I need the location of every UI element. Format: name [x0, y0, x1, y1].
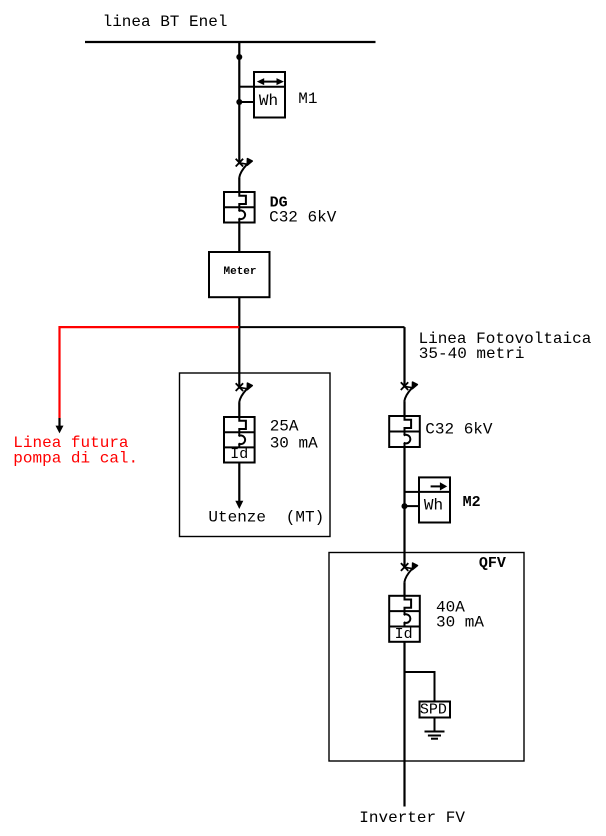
svg-text:Wh: Wh: [259, 92, 278, 110]
breaker contact QFV (x + blade + arrow): [401, 563, 418, 582]
wire M1 upper tap: [239, 86, 254, 88]
breaker contact DG (x + blade + arrow): [236, 159, 253, 178]
wire FV drop to breaker C32: [403, 327, 405, 388]
svg-text:C32 6kV: C32 6kV: [269, 208, 337, 226]
wire blade to breaker C32 FV: [403, 401, 405, 416]
svg-text:Id: Id: [395, 626, 413, 643]
wire blade to breaker DG: [238, 178, 240, 192]
svg-text:pompa di cal.: pompa di cal.: [13, 450, 138, 468]
svg-text:(MT): (MT): [286, 509, 324, 527]
panel box QFV: [329, 553, 524, 762]
meter Meter box: [209, 252, 270, 297]
wire SPD branch vertical: [434, 672, 436, 702]
wire M1 lower tap: [239, 101, 254, 103]
wire M2 lower tap: [405, 505, 420, 507]
svg-text:linea BT Enel: linea BT Enel: [103, 13, 228, 31]
arrow to Utenze: [235, 501, 243, 509]
breaker C32 6kV FV (thermal + magnetic): [389, 416, 420, 447]
svg-text:30 mA: 30 mA: [270, 435, 318, 453]
breaker contact 25A (x + blade + arrow): [236, 383, 253, 402]
junction dot M1 tap: [236, 99, 242, 105]
svg-text:C32 6kV: C32 6kV: [425, 421, 493, 439]
svg-text:Inverter FV: Inverter FV: [359, 809, 465, 827]
meter M1: [254, 72, 285, 118]
wire M2 upper tap: [405, 491, 420, 493]
wire DG to Meter: [238, 223, 240, 253]
wire C32 FV to QFV breaker: [403, 447, 405, 569]
ground: [425, 732, 445, 739]
bus linea BT Enel: [85, 41, 376, 43]
panel box Utenze: [180, 373, 331, 537]
SPD surge protector: [420, 701, 451, 718]
breaker contact C32 FV (x + blade + arrow): [401, 382, 418, 401]
wire RCBO 40A to inverter: [403, 642, 405, 807]
wire main drop from bus to breaker DG contact: [238, 42, 240, 164]
svg-text:QFV: QFV: [479, 555, 506, 572]
RCBO 25A 30mA (thermal + magnetic + differential Id): [224, 417, 255, 463]
wire RCBO 25A to arrow: [238, 463, 240, 502]
svg-text:SPD: SPD: [420, 701, 447, 718]
junction dot M2 tap: [402, 503, 408, 509]
wire SPD branch horizontal: [405, 671, 436, 673]
meter M2: [419, 477, 450, 522]
svg-text:Id: Id: [230, 446, 248, 463]
RCBO 40A 30mA (thermal + magnetic + differential Id): [389, 596, 420, 643]
svg-text:35-40 metri: 35-40 metri: [419, 345, 525, 363]
svg-text:Meter: Meter: [224, 266, 257, 278]
svg-text:M2: M2: [463, 494, 481, 511]
svg-text:25A: 25A: [270, 417, 299, 435]
svg-text:30 mA: 30 mA: [436, 613, 484, 631]
wire Meter to Utenze breaker: [238, 297, 240, 389]
svg-text:M1: M1: [298, 90, 317, 108]
breaker DG thermal-magnetic: [224, 192, 255, 223]
wire Linea Fotovoltaica branch: [239, 326, 404, 328]
red wire future heat pump line: [56, 327, 240, 433]
svg-text:Utenze: Utenze: [208, 509, 266, 527]
wire blade to RCBO 40A: [403, 582, 405, 596]
wire SPD to ground: [434, 718, 436, 732]
junction dot on main wire: [236, 54, 242, 60]
wire blade to RCBO 25A: [238, 402, 240, 417]
svg-text:Wh: Wh: [424, 497, 443, 515]
